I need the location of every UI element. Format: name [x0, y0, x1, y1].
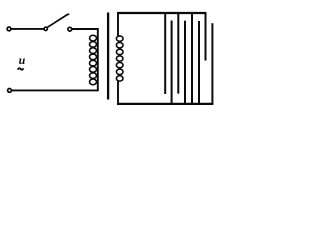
AC waveform symbol: [18, 68, 24, 70]
wire: [117, 12, 119, 37]
transformer T secondary winding: [116, 36, 123, 81]
wire: [117, 81, 119, 105]
terminal (bottom left): [8, 89, 12, 93]
wire: [72, 29, 98, 90]
electrode plate 7: [205, 13, 207, 61]
wire: [12, 89, 99, 91]
switch S contact (right): [68, 27, 72, 31]
electrode plate 6: [198, 21, 200, 104]
switch S blade: [47, 14, 69, 27]
electrode plate 4: [184, 21, 186, 104]
electrode bus (top): [117, 12, 207, 14]
electrode plate 1: [164, 13, 166, 94]
electrode plate 2: [171, 21, 173, 104]
transformer T primary winding: [90, 35, 97, 84]
wire: [11, 28, 44, 30]
electrode plate 3: [177, 13, 179, 94]
electrode bus (bottom): [117, 103, 213, 105]
switch S contact (left): [44, 27, 47, 30]
terminal (top left): [7, 27, 11, 31]
electrode plate 5: [191, 13, 193, 104]
electrode plate 8: [211, 23, 213, 104]
svg-text:u: u: [19, 53, 26, 67]
transformer T core: [107, 13, 109, 100]
